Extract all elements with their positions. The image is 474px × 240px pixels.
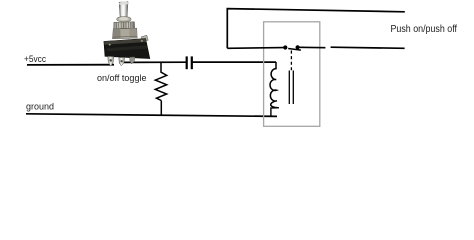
relay core lines: [289, 71, 293, 105]
relay contact throw dot: [296, 45, 300, 49]
relay contact blade: [288, 49, 301, 51]
lever tip: [119, 1, 128, 4]
capacitor C1: [187, 56, 192, 69]
svg-text:Push on/push off: Push on/push off: [391, 24, 458, 35]
wire into relay contact: [227, 47, 283, 50]
svg-text:on/off toggle: on/off toggle: [97, 73, 147, 83]
toggle switch S1 photo: [104, 1, 150, 66]
relay box: [264, 22, 320, 127]
wire resistor to ground: [160, 101, 162, 116]
relay armature dashed link: [290, 51, 292, 71]
wire capacitor to relay coil: [192, 61, 276, 63]
lever bat: [119, 2, 128, 18]
wire ground to coil: [271, 108, 279, 117]
hex nut: [113, 28, 138, 39]
svg-text:ground: ground: [26, 102, 54, 112]
terminal lug 1: [108, 56, 114, 66]
mounting tab: [141, 35, 148, 41]
wire push circuit top: [227, 9, 404, 49]
knurled nut: [114, 22, 135, 29]
terminal lug 3: [130, 57, 135, 64]
svg-text:+5vcc: +5vcc: [24, 54, 46, 64]
resistor R1: [155, 63, 166, 101]
relay coil L1: [270, 62, 279, 108]
body screws: [109, 44, 111, 46]
bushing dome washer: [117, 17, 131, 22]
switch body: [104, 39, 150, 59]
body sheen: [107, 45, 148, 51]
wire to push on/push off: [331, 47, 405, 48]
wire +5vcc horizontal: [27, 64, 114, 66]
relay contact pole dot: [283, 45, 287, 49]
wire switch to capacitor: [119, 61, 186, 63]
wire ground horizontal: [26, 114, 277, 117]
body top face: [104, 39, 147, 45]
wire out of relay contact: [300, 46, 326, 48]
terminal lug 2: [119, 57, 125, 65]
